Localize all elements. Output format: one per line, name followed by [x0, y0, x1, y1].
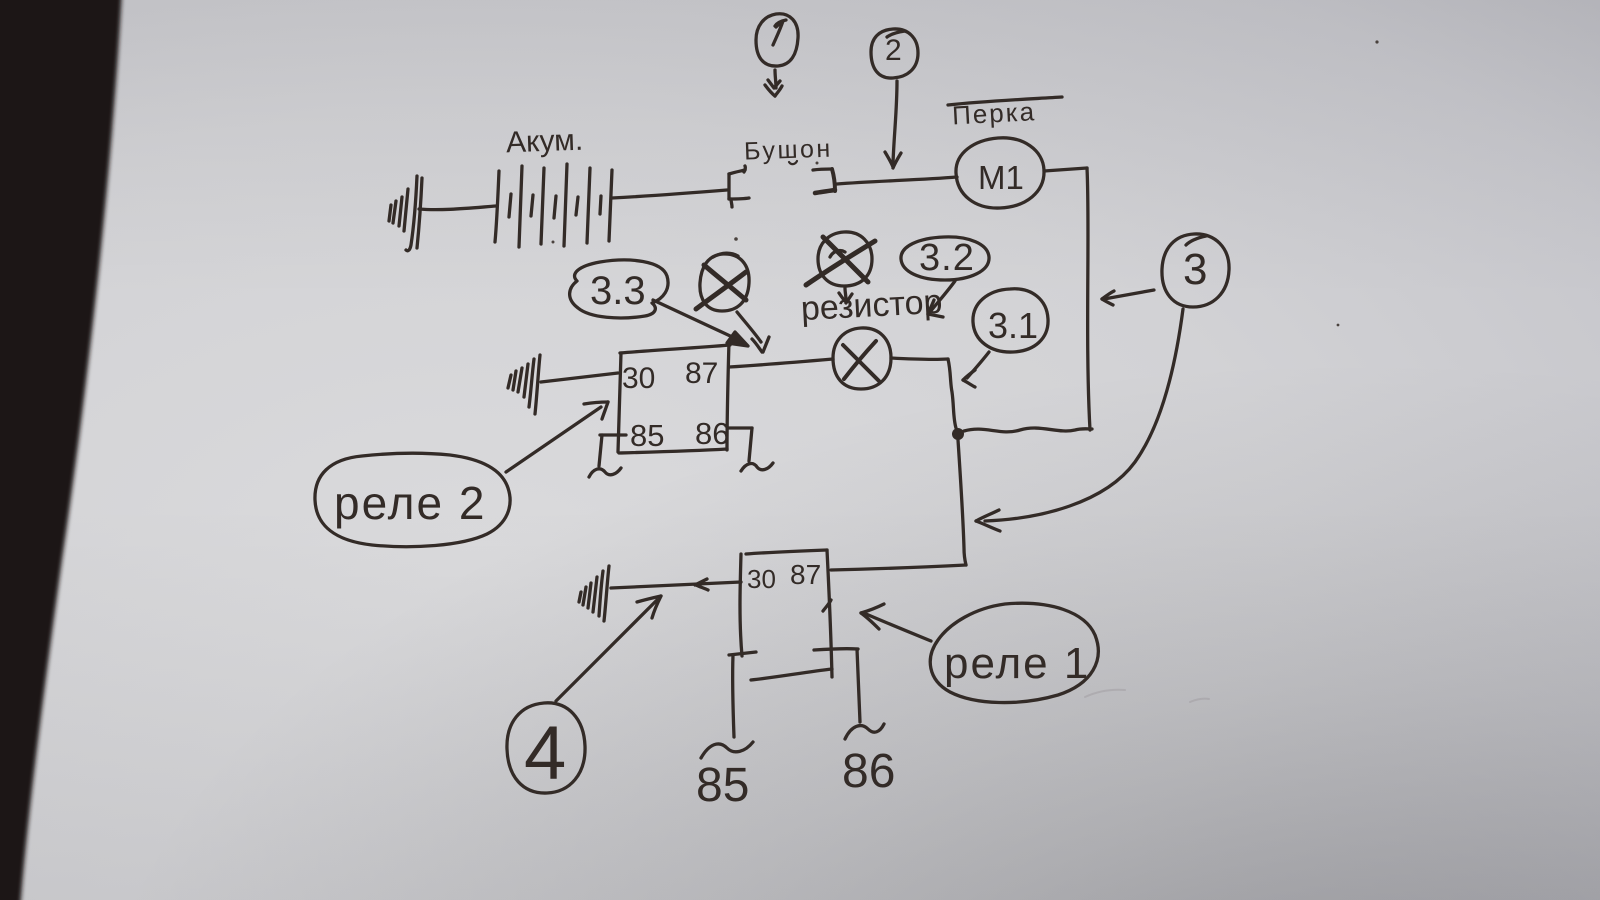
arrow 3.3 to relay2 — [653, 300, 748, 346]
relay 1 pin labels — [747, 559, 821, 594]
ground (relay 2) — [508, 355, 540, 414]
arrow реле 2 to relay 2 — [506, 402, 608, 472]
callout реле 1 — [930, 603, 1098, 702]
wire ground to relay 2 pin 30 — [541, 373, 618, 382]
battery Акум. cells — [495, 164, 612, 247]
wire fuse to motor — [837, 177, 957, 184]
wire lamp to junction — [891, 358, 956, 428]
callout circle 4 — [507, 703, 585, 796]
svg-text:2: 2 — [885, 34, 902, 67]
callout 3.1 — [973, 289, 1048, 352]
callout 3.3 — [570, 260, 668, 318]
dark table edge left — [0, 0, 122, 900]
svg-text:85: 85 — [630, 418, 664, 453]
crossed-out lamp A — [696, 253, 749, 311]
ground (relay 1) — [579, 566, 609, 621]
wire right vertical from motor — [1087, 168, 1090, 430]
callout реле 2 — [315, 453, 510, 546]
svg-text:30: 30 — [622, 362, 655, 395]
arrow 3 to vertical wire — [1102, 290, 1154, 305]
svg-text:87: 87 — [790, 559, 821, 590]
crossed-out lamp B — [806, 232, 875, 286]
wire battery to fuse — [612, 190, 727, 198]
svg-text:резистор: резистор — [800, 283, 943, 328]
callout circle 3 — [1162, 234, 1229, 307]
relay 1 box — [740, 550, 832, 680]
svg-text:Бушон: Бушон — [744, 135, 834, 166]
svg-text:86: 86 — [842, 745, 895, 798]
svg-text:3.3: 3.3 — [590, 269, 646, 313]
relay 2 box — [618, 341, 730, 453]
faint pencil smudges — [1085, 690, 1209, 702]
relay 2 pin 85 lead — [589, 435, 626, 477]
label Бушон — [744, 135, 834, 166]
arrow from 2 — [885, 81, 901, 168]
fuse F1 — [729, 166, 835, 207]
arrow реле 1 to relay 1 — [861, 604, 931, 641]
svg-text:3.2: 3.2 — [919, 237, 975, 279]
wire junction down — [958, 440, 966, 565]
wire battery to ground — [419, 206, 496, 210]
callout circle 1 — [756, 14, 798, 66]
ground (battery) — [389, 176, 422, 251]
wire junction to vertical (wavy) — [964, 428, 1092, 432]
relay 1 pin 85 lead — [701, 652, 756, 758]
wire relay2 87 to lamp — [729, 359, 833, 367]
arrow crossed lamp A to relay2 — [737, 312, 769, 352]
relay 2 pin 86 lead — [728, 428, 773, 471]
label Перка — [948, 96, 1062, 130]
svg-text:4: 4 — [524, 711, 566, 796]
arrow 3.2 to резистор — [928, 281, 955, 317]
svg-text:реле 2: реле 2 — [334, 477, 486, 529]
motor M1 (Перка) — [956, 138, 1044, 208]
arrow 3 curved to lower wire — [976, 309, 1183, 531]
wire to relay1 pin 87 — [831, 565, 966, 570]
svg-text:85: 85 — [696, 759, 749, 812]
svg-text:Акум.: Акум. — [506, 124, 584, 160]
junction node — [952, 428, 964, 440]
relay 2 pin labels — [622, 357, 729, 453]
svg-text:реле 1: реле 1 — [944, 639, 1090, 688]
svg-text:3.1: 3.1 — [988, 305, 1038, 346]
svg-text:3: 3 — [1183, 245, 1207, 294]
wire motor to right corner — [1044, 168, 1087, 171]
callout 3.2 — [901, 237, 989, 280]
callout circle 2 — [871, 29, 918, 78]
relay 1 pin 86 lead — [814, 649, 884, 739]
arrow from 1 — [765, 70, 782, 96]
lamp (резистор symbol) — [833, 328, 891, 389]
svg-text:87: 87 — [685, 357, 718, 390]
svg-text:86: 86 — [695, 416, 729, 451]
svg-text:30: 30 — [747, 564, 776, 594]
wire ground to relay 1 pin 30 — [611, 579, 741, 590]
pen specks — [552, 40, 1379, 326]
arrow 4 to relay 1 wire — [556, 596, 661, 701]
arrow under crossed lamp B — [839, 288, 852, 303]
arrow 3.1 to wire — [963, 352, 989, 387]
svg-text:М1: М1 — [978, 159, 1024, 196]
